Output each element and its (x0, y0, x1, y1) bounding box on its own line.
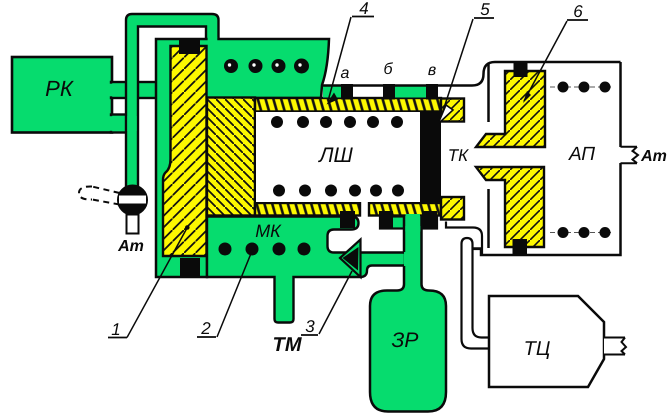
release valve to atmosphere (79, 186, 147, 234)
bottom seat band left (255, 203, 360, 216)
svg-text:ЗР: ЗР (392, 329, 419, 352)
svg-text:АП: АП (568, 144, 595, 165)
reservoir РК (12, 57, 112, 133)
wire pipe from РК upper (111, 82, 161, 98)
bottom seat band right (369, 203, 441, 216)
pin АП bottom (513, 239, 528, 256)
svg-text:МК: МК (255, 221, 282, 241)
wire pipe from РК lower (111, 115, 136, 133)
svg-text:6: 6 (573, 2, 583, 21)
node 4 (327, 0, 375, 105)
port pin б (383, 84, 395, 100)
svg-text:ЛШ: ЛШ (317, 144, 353, 167)
node 3 (301, 271, 352, 336)
svg-text:1: 1 (111, 320, 120, 339)
node 6 (523, 2, 588, 103)
svg-text:3: 3 (305, 317, 315, 336)
port pin в (426, 84, 438, 100)
port Ат right stub (622, 148, 636, 162)
spring dots АП top (550, 82, 614, 93)
svg-text:в: в (428, 62, 436, 79)
valve body block (207, 98, 255, 216)
svg-text:б: б (384, 61, 394, 78)
node 1 (108, 225, 190, 339)
svg-text:4: 4 (359, 0, 368, 18)
charged port green fills (323, 87, 341, 98)
node 5 (438, 0, 494, 124)
lower pin б' (379, 211, 393, 228)
seat block ТК bottom (441, 197, 464, 220)
green body: piston cylinder and upper spring chamber (156, 39, 329, 277)
wire strip under pins (380, 217, 437, 229)
seat block ТК top (441, 99, 464, 122)
chamber ЛШ (256, 112, 420, 202)
pipe to ЗР and reservoir ЗР (370, 216, 446, 412)
piston bottom pin (180, 258, 200, 276)
piston top cap (179, 40, 200, 54)
brake cylinder ТЦ (489, 296, 604, 387)
piston 1 (163, 46, 207, 256)
svg-text:2: 2 (200, 319, 211, 338)
lower pin a' (340, 211, 355, 228)
wire pipe АП to ТЦ (446, 222, 482, 256)
node 2 (197, 251, 252, 338)
svg-text:ТЦ: ТЦ (524, 338, 551, 360)
valve piece 6 top (476, 71, 545, 147)
slide valve 5 (420, 112, 441, 204)
pin АП top (514, 61, 528, 77)
top seat band (255, 98, 441, 112)
chamber АП box (473, 62, 621, 255)
node spring dots upper chamber (224, 59, 309, 74)
svg-text:а: а (341, 65, 350, 82)
wire loop pipe to piston top (126, 14, 219, 187)
junction cover (128, 84, 137, 97)
svg-text:ТМ: ТМ (272, 334, 302, 356)
svg-text:ТК: ТК (448, 146, 469, 165)
check valve 3 (340, 240, 361, 278)
spring dots АП bottom (550, 227, 614, 238)
lower pin в' (422, 211, 437, 228)
svg-text:Ат: Ат (640, 148, 667, 165)
wire channel to АП (323, 62, 621, 86)
svg-text:5: 5 (480, 0, 490, 19)
chamber МК body with channels and ТМ pipe (207, 217, 405, 323)
valve piece bottom (476, 167, 544, 247)
svg-text:РК: РК (45, 76, 74, 101)
svg-text:Ат: Ат (117, 238, 144, 255)
port pin a (341, 84, 353, 100)
